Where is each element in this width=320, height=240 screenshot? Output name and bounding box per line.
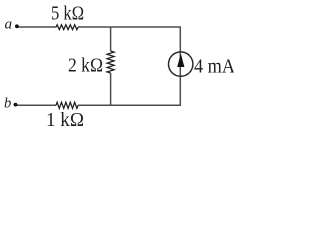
svg-text:2 kΩ: 2 kΩ bbox=[68, 54, 103, 76]
svg-text:a: a bbox=[5, 17, 13, 33]
svg-text:5 kΩ: 5 kΩ bbox=[51, 2, 84, 24]
svg-text:4 mA: 4 mA bbox=[194, 55, 234, 77]
svg-text:b: b bbox=[4, 96, 11, 112]
svg-text:1 kΩ: 1 kΩ bbox=[46, 109, 84, 131]
